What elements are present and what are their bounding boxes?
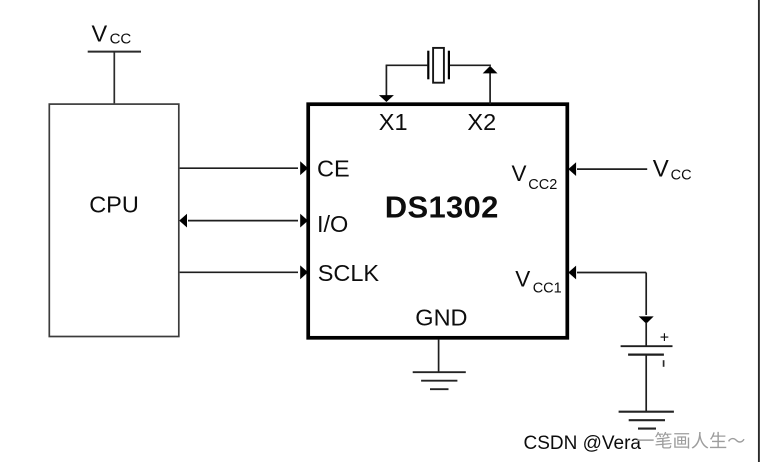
svg-text:X2: X2: [467, 109, 496, 135]
power VCC (right supply label): [653, 155, 692, 183]
wire GND pin: [438, 340, 440, 373]
wire VCC to VCC2: [568, 162, 647, 176]
wire VCC to CPU: [113, 52, 115, 104]
pin label VCC2: [512, 161, 558, 193]
wire VCC1 to battery: [568, 266, 653, 346]
power VCC (top-left supply symbol): [88, 20, 141, 51]
svg-text:CC2: CC2: [528, 177, 557, 193]
svg-text:V: V: [512, 161, 527, 186]
watermark CSDN: [524, 432, 745, 454]
frame line right edge: [758, 0, 760, 462]
svg-text:CSDN @Vera: CSDN @Vera: [524, 433, 642, 454]
crystal Y1: [428, 48, 449, 83]
CPU block: [49, 104, 179, 336]
svg-text:V: V: [92, 20, 108, 46]
wire crystal top left: [386, 64, 428, 66]
battery B1: [621, 329, 673, 367]
wire SCLK: [180, 265, 308, 279]
svg-text:V: V: [515, 266, 530, 291]
IC U1 DS1302 package outline: [308, 104, 567, 338]
svg-text:GND: GND: [415, 304, 467, 330]
svg-text:CE: CE: [317, 155, 350, 181]
svg-text:+: +: [660, 329, 669, 346]
svg-text:CC: CC: [110, 31, 132, 48]
ground (battery): [619, 412, 674, 429]
svg-text:V: V: [653, 155, 669, 182]
svg-text:DS1302: DS1302: [385, 190, 499, 225]
svg-text:I/O: I/O: [317, 211, 348, 237]
svg-text:X1: X1: [379, 109, 408, 135]
battery positive plate: [621, 345, 673, 347]
wire CE: [180, 161, 308, 175]
wire crystal top right: [450, 64, 491, 66]
wire X2 branch (up arrow toward crystal): [483, 66, 498, 104]
wire battery to ground: [645, 355, 647, 411]
ground (GND pin): [413, 372, 466, 389]
battery negative plate: [628, 353, 664, 355]
battery polarity label -: [663, 360, 665, 367]
wire X1 branch (down arrow into X1): [379, 65, 394, 102]
svg-text:SCLK: SCLK: [318, 260, 380, 286]
pin label VCC1: [515, 266, 561, 296]
wire I/O (bidirectional): [179, 214, 308, 228]
svg-text:CC1: CC1: [533, 281, 562, 297]
svg-text:CPU: CPU: [89, 191, 139, 217]
svg-text:CC: CC: [671, 168, 692, 184]
